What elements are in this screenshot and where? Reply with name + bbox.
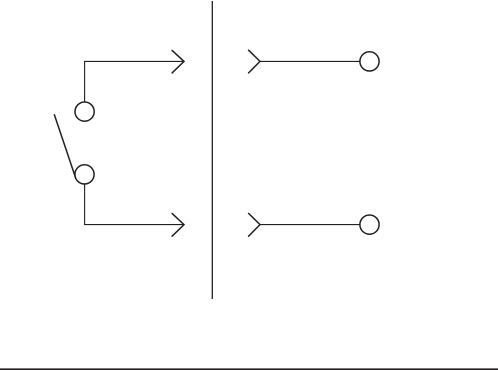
bottom rule line: [0, 368, 498, 370]
wire: bottom-right horizontal: [260, 224, 360, 226]
wire: top-left horizontal from switch to arrow: [85, 61, 184, 101]
chevron terminal top-right: [249, 50, 260, 73]
switch blade (pole lever): [54, 114, 75, 177]
terminal circle bottom-right: [360, 215, 379, 234]
arrowhead on bottom-left wire: [172, 213, 184, 236]
terminal circle top-right: [360, 52, 379, 71]
switch contact terminal (bottom circle): [75, 165, 94, 184]
switch contact terminal (top circle): [75, 102, 94, 121]
chevron terminal bottom-right: [249, 213, 260, 236]
wire: top-right horizontal: [260, 60, 360, 62]
barrier / connector dividing line: [211, 1, 213, 299]
wire: bottom-left horizontal from switch to arrow: [85, 184, 184, 224]
arrowhead on top-left wire: [172, 50, 184, 73]
